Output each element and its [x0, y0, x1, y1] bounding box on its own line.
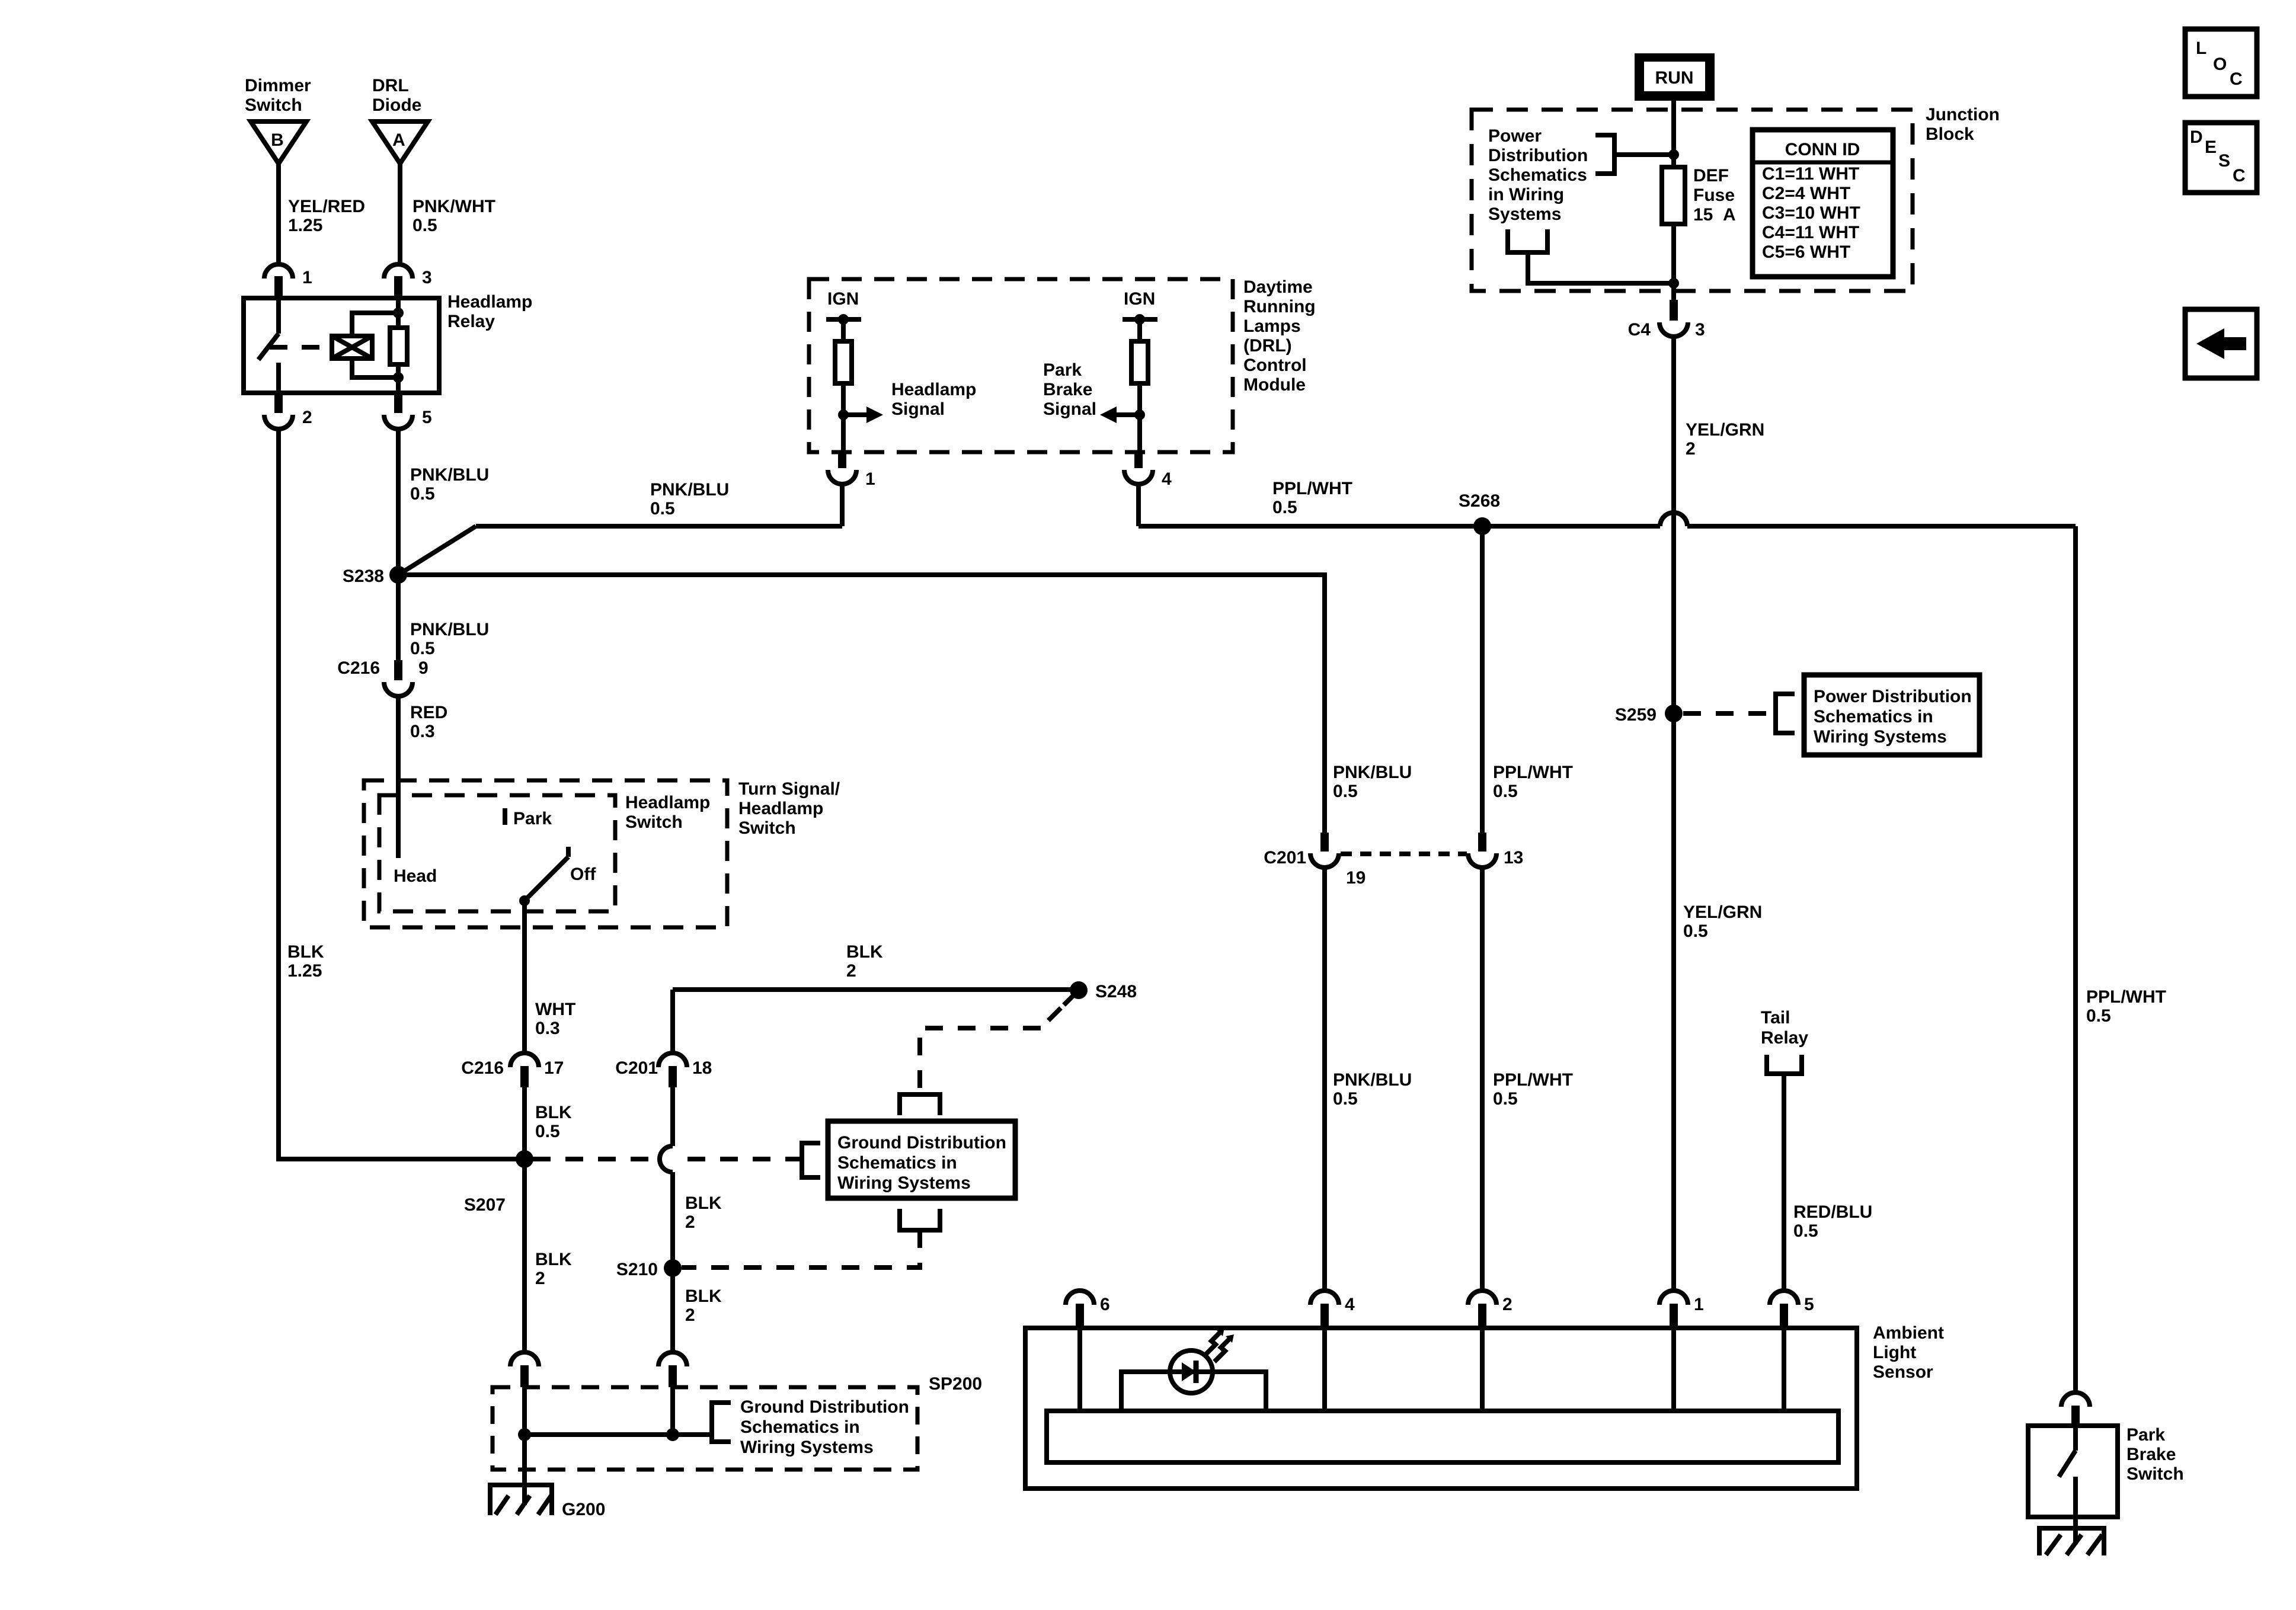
photodiode (ambient light sensor element) [1170, 1350, 1213, 1393]
svg-text:Power: Power [1488, 126, 1542, 146]
svg-text:S248: S248 [1095, 982, 1137, 1001]
splice S268 [1459, 491, 1500, 535]
DESC reference box [2185, 123, 2257, 193]
wire DRL pin 1 down to PNK/BLU run [840, 484, 845, 526]
svg-text:0.5: 0.5 [1333, 1089, 1358, 1109]
svg-text:2: 2 [685, 1305, 695, 1325]
svg-text:Headlamp: Headlamp [625, 793, 710, 812]
IGN internal supply (right) [1123, 289, 1157, 341]
svg-text:A: A [392, 130, 405, 150]
svg-text:C3=10 WHT: C3=10 WHT [1762, 203, 1860, 223]
wire lower bracket to fuse output [1528, 252, 1679, 289]
svg-text:2: 2 [846, 961, 856, 981]
headlamp relay box [244, 298, 439, 393]
svg-text:0.3: 0.3 [410, 722, 435, 741]
svg-text:YEL/RED: YEL/RED [288, 197, 365, 216]
svg-text:in Wiring: in Wiring [1488, 185, 1564, 204]
connector ALS pin 2 [1468, 1291, 1512, 1329]
bracket (left) of ground distribution box [802, 1143, 820, 1177]
svg-text:Junction: Junction [1926, 105, 2000, 124]
svg-text:PNK/BLU: PNK/BLU [650, 480, 729, 500]
wire PNK/BLU C201-19 to ALS pin 4 [1322, 868, 1327, 1292]
label Power Distribution Schematics in Wiring Systems (junction block) [1488, 126, 1588, 224]
svg-text:0.3: 0.3 [535, 1019, 560, 1038]
svg-text:PPL/WHT: PPL/WHT [2086, 987, 2166, 1007]
svg-text:0.5: 0.5 [410, 484, 435, 504]
svg-text:0.5: 0.5 [650, 499, 675, 518]
DRL control module dashed box [809, 279, 1233, 452]
wire PPL/WHT bus pin4 to right drop (hop over YEL/GRN) [1139, 513, 2076, 526]
svg-text:Headlamp: Headlamp [891, 380, 976, 399]
svg-text:IGN: IGN [1124, 289, 1155, 309]
svg-text:1: 1 [865, 469, 875, 489]
svg-text:Control: Control [1243, 356, 1307, 375]
svg-text:Switch: Switch [2126, 1464, 2184, 1484]
switch position Park (tick and label) [505, 808, 552, 828]
svg-text:C: C [2230, 69, 2243, 89]
svg-text:Brake: Brake [2126, 1445, 2176, 1464]
DEF fuse 15 A [1662, 166, 1736, 225]
svg-text:Headlamp: Headlamp [738, 799, 823, 818]
wire SP200 to G200 [522, 1435, 527, 1505]
label Daytime Running Lamps (DRL) Control Module [1243, 277, 1316, 395]
resistor (headlamp signal pull-up) [835, 341, 852, 383]
svg-text:Park: Park [513, 809, 552, 828]
svg-text:1: 1 [302, 268, 312, 287]
svg-text:C216: C216 [461, 1058, 504, 1078]
bracket (top) of ground distribution box [900, 1094, 940, 1115]
svg-text:Diode: Diode [372, 95, 421, 115]
svg-text:B: B [271, 130, 284, 150]
svg-text:0.5: 0.5 [1493, 782, 1518, 801]
wire diagonal S238 up to DRL pin 1 horizontal [398, 526, 842, 575]
svg-text:0.5: 0.5 [535, 1122, 560, 1141]
junction block dashed box [1472, 110, 1913, 291]
turn signal / headlamp switch outer dashed box [364, 780, 727, 927]
svg-text:Dimmer: Dimmer [245, 76, 311, 95]
svg-text:0.5: 0.5 [1272, 498, 1297, 517]
arrow park brake signal [1100, 406, 1140, 423]
svg-text:Switch: Switch [625, 812, 683, 832]
relay resistor [390, 298, 407, 393]
svg-text:Ground Distribution: Ground Distribution [837, 1133, 1006, 1153]
svg-text:Wiring Systems: Wiring Systems [1814, 727, 1947, 747]
svg-text:Distribution: Distribution [1488, 146, 1588, 165]
svg-text:E: E [2205, 137, 2217, 157]
connector DRL pin 4 [1124, 452, 1172, 489]
svg-text:C: C [2233, 166, 2246, 185]
svg-text:RUN: RUN [1655, 68, 1694, 88]
connector C201 pin 19 [1264, 833, 1366, 888]
bracket to ground distribution text (SP200) [712, 1403, 731, 1442]
svg-text:Daytime: Daytime [1243, 277, 1313, 297]
svg-text:Turn Signal/: Turn Signal/ [738, 779, 840, 799]
wire BLK S207 down to SP200 [522, 1159, 527, 1352]
svg-text:5: 5 [1804, 1295, 1814, 1314]
svg-text:Systems: Systems [1488, 204, 1561, 224]
svg-text:9: 9 [418, 658, 428, 678]
wire PPL/WHT S268 down to C201 pin 13 [1480, 526, 1485, 833]
svg-text:G200: G200 [562, 1500, 605, 1519]
svg-text:SP200: SP200 [929, 1374, 982, 1394]
connector ALS pin 5 [1770, 1291, 1814, 1329]
svg-text:O: O [2213, 55, 2227, 74]
svg-text:Park: Park [2126, 1425, 2165, 1445]
wire C201-18 drop from BLK 2 bus [670, 990, 675, 1054]
svg-text:PNK/BLU: PNK/BLU [1333, 1070, 1412, 1090]
svg-text:Relay: Relay [1761, 1028, 1808, 1048]
bracket (bottom) of ground distribution box [900, 1209, 940, 1230]
label Ground Distribution Schematics in Wiring Systems (SP200) [740, 1397, 909, 1457]
svg-text:0.5: 0.5 [2086, 1006, 2111, 1026]
svg-text:PPL/WHT: PPL/WHT [1272, 479, 1352, 498]
svg-text:PNK/BLU: PNK/BLU [410, 620, 489, 639]
svg-text:Brake: Brake [1043, 380, 1092, 399]
photodiode circuit wiring [1121, 1372, 1266, 1411]
headlamp switch inner dashed box [379, 795, 615, 911]
svg-text:L: L [2196, 39, 2207, 58]
bracket power distribution (lower) [1508, 229, 1547, 252]
splice S207 [464, 1150, 533, 1215]
wire S238 bus to PNK/BLU drop [398, 575, 1325, 833]
headlamp switch blade [519, 847, 568, 906]
LOC reference box [2185, 29, 2257, 97]
svg-text:C2=4 WHT: C2=4 WHT [1762, 184, 1850, 203]
ALS internal pin wires to substrate [1080, 1329, 1784, 1411]
svg-text:15 A: 15 A [1693, 205, 1736, 225]
svg-text:PPL/WHT: PPL/WHT [1493, 1070, 1573, 1090]
CONN ID table [1753, 130, 1893, 277]
svg-text:Park: Park [1043, 360, 1082, 380]
svg-text:1.25: 1.25 [288, 216, 322, 235]
wire PPL/WHT right drop to park brake switch [2073, 526, 2078, 1393]
connector pin 5 (relay) [384, 393, 432, 429]
svg-text:BLK: BLK [685, 1193, 722, 1213]
svg-text:3: 3 [422, 268, 432, 287]
wire BLK from relay pin 2 to S207 [279, 429, 520, 1159]
svg-text:5: 5 [422, 408, 432, 427]
svg-text:Switch: Switch [738, 818, 796, 838]
svg-text:2: 2 [1502, 1295, 1512, 1314]
ground distribution schematics box [828, 1121, 1015, 1198]
svg-text:CONN ID: CONN ID [1785, 140, 1860, 159]
connector ALS pin 1 [1659, 1291, 1704, 1329]
dashed link S207 to ground distribution bracket [533, 1157, 801, 1161]
svg-text:Headlamp: Headlamp [447, 292, 532, 312]
svg-text:0.5: 0.5 [412, 216, 437, 235]
relay coil connection loop [352, 313, 398, 377]
connector ALS pin 4 [1310, 1280, 1355, 1329]
svg-text:C201: C201 [615, 1058, 658, 1078]
ALS substrate bar [1047, 1411, 1838, 1462]
SP200 dashed splice pack box [493, 1374, 982, 1470]
svg-text:C201: C201 [1264, 848, 1306, 868]
svg-text:S238: S238 [343, 566, 384, 586]
svg-text:Signal: Signal [1043, 399, 1096, 419]
svg-text:S207: S207 [464, 1195, 506, 1215]
connector ALS pin 6 [1066, 1291, 1110, 1329]
connector C201 pin 18 [615, 1053, 712, 1087]
tail relay connection bracket [1767, 1055, 1802, 1074]
svg-text:Wiring Systems: Wiring Systems [740, 1438, 874, 1457]
svg-text:S268: S268 [1459, 491, 1500, 511]
connector above SP200 (left) [510, 1352, 539, 1387]
splice S238 [343, 566, 407, 586]
wire RED C216-9 into headlamp switch [396, 696, 401, 858]
svg-text:PNK/WHT: PNK/WHT [412, 197, 495, 216]
svg-text:D: D [2190, 127, 2203, 147]
wire RED/BLU tail relay to ALS pin 5 [1782, 1074, 1786, 1292]
svg-text:4: 4 [1162, 469, 1172, 489]
connector triangle A (DRL Diode) [372, 121, 428, 164]
svg-text:Off: Off [570, 865, 596, 884]
connector DRL pin 1 [828, 452, 875, 489]
svg-text:DEF: DEF [1693, 166, 1729, 185]
svg-text:Schematics: Schematics [1488, 165, 1587, 185]
wire bracket to DEF fuse feed [1614, 149, 1679, 160]
svg-text:0.5: 0.5 [410, 639, 435, 658]
relay switch contact (pin 1 side) [258, 298, 279, 393]
svg-text:C1=11 WHT: C1=11 WHT [1762, 164, 1859, 184]
svg-text:BLK: BLK [535, 1103, 572, 1122]
svg-text:2: 2 [535, 1269, 545, 1288]
svg-text:4: 4 [1345, 1295, 1355, 1314]
svg-text:YEL/GRN: YEL/GRN [1683, 902, 1762, 922]
wire BLK C201-18 to S210 with hop over S207 dashed link [660, 1087, 673, 1268]
ambient light sensor box [1025, 1328, 1857, 1489]
wire BLK 2 bus to S248 [673, 987, 1079, 992]
svg-text:Fuse: Fuse [1693, 185, 1735, 205]
svg-text:YEL/GRN: YEL/GRN [1686, 420, 1764, 440]
svg-text:PNK/BLU: PNK/BLU [410, 465, 489, 485]
svg-text:18: 18 [692, 1058, 712, 1078]
svg-text:RED: RED [410, 703, 447, 722]
ground G200 [490, 1485, 605, 1519]
svg-text:WHT: WHT [535, 1000, 575, 1019]
svg-text:13: 13 [1504, 848, 1523, 868]
svg-text:19: 19 [1346, 868, 1366, 888]
connector above SP200 (right) [658, 1352, 687, 1387]
connector C4 pin 3 [1628, 300, 1705, 340]
connector C216 pin 9 [337, 658, 428, 696]
svg-text:0.5: 0.5 [1333, 782, 1358, 801]
svg-text:S210: S210 [616, 1260, 658, 1279]
wire DRL pin 4 down to PPL/WHT bus [1136, 484, 1141, 526]
svg-text:Ambient: Ambient [1873, 1323, 1944, 1343]
wire triangle B to relay pin 1 [276, 164, 281, 264]
connector pin 1 (relay) [264, 264, 312, 299]
svg-text:Light: Light [1873, 1343, 1916, 1362]
svg-text:DRL: DRL [372, 76, 409, 95]
svg-text:PNK/BLU: PNK/BLU [1333, 763, 1412, 782]
svg-text:Head: Head [394, 866, 437, 886]
splice S259 [1615, 705, 1683, 725]
svg-text:S259: S259 [1615, 705, 1657, 725]
svg-text:BLK: BLK [287, 942, 324, 962]
park brake switch box [2028, 1426, 2118, 1517]
svg-text:RED/BLU: RED/BLU [1793, 1202, 1872, 1222]
svg-text:(DRL): (DRL) [1243, 336, 1292, 356]
svg-text:Ground Distribution: Ground Distribution [740, 1397, 909, 1417]
svg-text:PPL/WHT: PPL/WHT [1493, 763, 1573, 782]
svg-text:Signal: Signal [891, 399, 945, 419]
bracket power distribution (upper) [1595, 135, 1614, 174]
svg-text:S: S [2218, 151, 2230, 171]
wire S238 down to C216 pin 9 [396, 575, 401, 660]
svg-text:Relay: Relay [447, 312, 495, 331]
splice S248 [1070, 981, 1137, 1001]
connector C216 pin 17 [461, 1053, 564, 1087]
svg-text:Power Distribution: Power Distribution [1814, 687, 1972, 706]
left-arrow reference box [2185, 309, 2257, 378]
ground (park brake switch) [2039, 1528, 2104, 1555]
wire PPL/WHT C201-13 to ALS pin 2 [1480, 868, 1485, 1292]
svg-text:1: 1 [1694, 1295, 1704, 1314]
bracket of power distribution box [1776, 694, 1795, 733]
svg-text:Switch: Switch [245, 95, 302, 115]
svg-text:Running: Running [1243, 297, 1316, 316]
svg-text:BLK: BLK [846, 942, 883, 962]
wires inside SP200 with junction dots [518, 1387, 712, 1441]
svg-text:0.5: 0.5 [1683, 921, 1708, 941]
park brake switch contacts and blade [2059, 1427, 2076, 1544]
svg-text:IGN: IGN [827, 289, 859, 309]
svg-text:2: 2 [302, 408, 312, 427]
splice S210 [616, 1259, 682, 1279]
wire YEL/GRN C4 down (crosses bus with hop) to S259 and ALS pin 1 [1671, 337, 1676, 1292]
resistor (park brake signal pull-up) [1131, 341, 1148, 383]
wire RUN to DEF fuse [1671, 101, 1676, 167]
wire switch wiper down to C216 pin 17 [522, 901, 527, 1054]
light arrows into photodiode [1205, 1328, 1234, 1362]
relay coil (box with X) [332, 336, 372, 359]
connector C201 pin 13 [1468, 833, 1523, 868]
connector pin 3 (relay) [384, 264, 432, 299]
wire triangle A to relay pin 3 [398, 164, 402, 264]
dashed link S259 to power distribution bracket [1683, 711, 1774, 716]
svg-text:C5=6 WHT: C5=6 WHT [1762, 242, 1850, 262]
svg-text:Schematics in: Schematics in [1814, 707, 1933, 726]
wire PNK/BLU relay pin 5 to S238 [396, 429, 401, 575]
RUN ignition position box [1635, 53, 1715, 101]
wire BLK C216-17 to S207 [522, 1087, 527, 1159]
svg-text:3: 3 [1695, 320, 1705, 340]
svg-text:Lamps: Lamps [1243, 316, 1301, 336]
wire resistor to pin 1 with junction [838, 383, 849, 452]
dashed link S248 to ground distribution box [920, 994, 1075, 1092]
svg-text:2: 2 [1686, 439, 1696, 459]
svg-text:Schematics in: Schematics in [740, 1417, 860, 1437]
wire BLK S210 down to SP200 [670, 1268, 675, 1352]
svg-text:Sensor: Sensor [1873, 1362, 1933, 1382]
svg-text:2: 2 [685, 1212, 695, 1232]
svg-text:Schematics in: Schematics in [837, 1153, 957, 1173]
relay coil dashed link [270, 345, 330, 350]
power distribution schematics box [1804, 675, 1980, 755]
svg-text:BLK: BLK [535, 1250, 572, 1269]
svg-text:BLK: BLK [685, 1286, 722, 1306]
arrow headlamp signal [843, 406, 883, 423]
svg-text:Module: Module [1243, 375, 1306, 395]
dashed link C201 pin 19 to pin 13 [1341, 852, 1467, 856]
svg-text:6: 6 [1100, 1295, 1110, 1314]
svg-text:1.25: 1.25 [287, 961, 322, 981]
wire resistor to pin 4 with junction [1134, 383, 1145, 452]
connector pin 2 (relay) [264, 393, 312, 429]
wire DEF fuse to C4 [1671, 224, 1676, 300]
IGN internal supply (left) [826, 289, 861, 341]
connector park brake switch [2061, 1393, 2090, 1427]
svg-text:C4=11 WHT: C4=11 WHT [1762, 223, 1859, 242]
svg-text:0.5: 0.5 [1793, 1221, 1818, 1241]
connector triangle B (Dimmer Switch) [251, 121, 306, 164]
svg-text:C4: C4 [1628, 320, 1651, 340]
svg-text:C216: C216 [337, 658, 380, 678]
svg-text:Block: Block [1926, 124, 1974, 144]
svg-text:0.5: 0.5 [1493, 1089, 1518, 1109]
svg-text:Wiring Systems: Wiring Systems [837, 1173, 971, 1193]
dashed link ground distribution box to S210 [682, 1230, 920, 1267]
svg-text:Tail: Tail [1761, 1008, 1790, 1028]
svg-text:17: 17 [544, 1058, 564, 1078]
